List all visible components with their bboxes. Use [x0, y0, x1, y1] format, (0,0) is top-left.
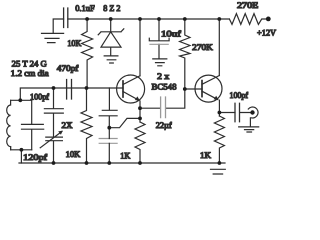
svg-text:0.1uF: 0.1uF — [75, 3, 95, 13]
resistor 10K upper — [82, 19, 93, 88]
capacitor 470pf — [67, 80, 72, 100]
junction bottom rail / 1K left — [138, 161, 142, 165]
capacitor divider C-b (gray) — [99, 139, 117, 144]
svg-text:10K: 10K — [67, 38, 82, 48]
wire tank bottom — [11, 147, 32, 163]
junction base wire / 10K divider — [85, 86, 89, 90]
svg-text:+12V: +12V — [257, 27, 277, 37]
wire base line — [20, 88, 123, 100]
wire tank top node — [11, 99, 32, 101]
capacitor 22uf (gray) — [161, 97, 166, 118]
svg-text:100pf: 100pf — [230, 90, 249, 100]
wire Q1 emitter column — [139, 101, 141, 122]
node tank bottom — [20, 148, 24, 152]
wire divider bottom lead — [108, 128, 110, 163]
svg-text:120pf: 120pf — [23, 152, 47, 162]
svg-text:1K: 1K — [120, 151, 131, 161]
svg-text:2X: 2X — [62, 120, 74, 130]
junction Q2 base / 270K — [183, 87, 187, 91]
svg-text:25 T 24 G: 25 T 24 G — [12, 58, 47, 68]
junction bottom rail / 10K — [85, 161, 89, 165]
wire Q2 emitter column — [218, 100, 220, 116]
junction Q1 emitter / tap link — [138, 117, 142, 121]
wire Q2 collector riser — [218, 19, 220, 76]
resistor 10K lower — [81, 88, 92, 163]
wire jack ground lead — [249, 118, 251, 127]
capacitor divider C-a — [99, 88, 117, 128]
junction bottom rail / divider — [107, 161, 111, 165]
wire 0.1uF left lead — [53, 19, 63, 33]
svg-text:22µf: 22µf — [156, 120, 172, 130]
node tank top — [18, 98, 22, 102]
wire tap link to emitter — [109, 118, 140, 127]
wire top rail — [68, 18, 230, 20]
wire Q2 base — [185, 88, 202, 90]
svg-text:8 Z 2: 8 Z 2 — [103, 3, 120, 13]
svg-text:270K: 270K — [192, 42, 213, 52]
svg-text:270E: 270E — [237, 0, 258, 10]
inductor L1 coil — [7, 100, 11, 150]
junction Q1 emitter / 22uf — [138, 106, 142, 110]
transistor Q2 BC548 — [195, 75, 222, 102]
svg-text:1.2 cm dia: 1.2 cm dia — [11, 68, 49, 78]
ground G3 — [153, 59, 167, 66]
resistor 1K left — [135, 122, 145, 163]
svg-text:100pf: 100pf — [30, 92, 49, 102]
junction top rail / zener — [109, 17, 113, 21]
junction top rail / Q2 collector — [217, 17, 221, 21]
ground G4 — [239, 127, 259, 132]
node +12V terminal — [266, 17, 271, 22]
resistor 1K right — [214, 116, 224, 163]
svg-text:10K: 10K — [66, 149, 81, 159]
wire Q1 collector riser — [139, 19, 141, 76]
svg-text:1K: 1K — [200, 150, 212, 160]
node divider tap — [107, 126, 111, 130]
capacitor 100pf output — [235, 103, 240, 121]
junction bottom rail / 2X gang — [52, 161, 56, 165]
wire bottom rail — [19, 162, 225, 164]
svg-text:BC548: BC548 — [152, 81, 177, 91]
connector output jack — [248, 107, 258, 118]
junction bottom rail / 1K right — [218, 161, 222, 165]
svg-text:2 x: 2 x — [157, 71, 170, 81]
junction top rail / Q1 collector — [138, 17, 142, 21]
variable capacitor 2X gang section B — [46, 137, 63, 163]
junction Q2 emitter / output — [218, 111, 222, 115]
resistor 270E — [229, 14, 266, 25]
variable capacitor 2X gang section A — [44, 88, 63, 137]
svg-text:10uf: 10uf — [161, 28, 181, 38]
junction base wire / 2X gang — [52, 86, 56, 90]
capacitor 0.1uF — [64, 8, 68, 28]
wire 22uf line — [140, 89, 185, 108]
junction top rail / 10uf — [157, 17, 161, 21]
wire output line — [219, 112, 250, 114]
ground G5 — [211, 169, 226, 174]
resistor 270K — [180, 19, 190, 89]
zener diode 8Z2 — [98, 19, 124, 56]
capacitor 10uf — [149, 19, 169, 59]
capacitor 100pf tank — [22, 100, 44, 150]
junction top rail / 10K — [85, 17, 89, 21]
transistor Q1 BC548 — [117, 75, 145, 103]
junction top rail / 270K — [183, 17, 187, 21]
ground G1 — [42, 33, 64, 42]
ground G2 — [104, 56, 118, 63]
variable capacitor arrow — [40, 131, 62, 147]
svg-text:470pf: 470pf — [57, 63, 79, 73]
